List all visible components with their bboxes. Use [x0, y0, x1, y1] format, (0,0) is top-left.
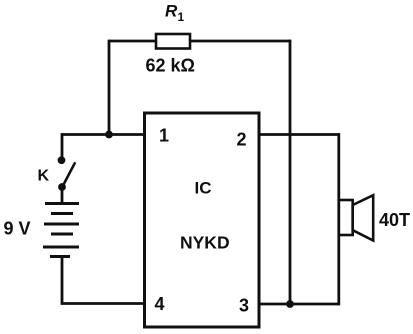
svg-text:3: 3 — [239, 296, 249, 316]
speaker LS1 40T — [339, 195, 373, 240]
wire top horizontal — [109, 40, 291, 43]
svg-text:1: 1 — [178, 10, 185, 24]
svg-text:62 kΩ: 62 kΩ — [146, 56, 195, 76]
switch K — [58, 156, 76, 191]
svg-text:R: R — [165, 2, 178, 21]
svg-text:1: 1 — [159, 126, 169, 146]
battery 9V — [43, 204, 79, 257]
svg-text:2: 2 — [237, 130, 247, 150]
svg-text:IC: IC — [195, 179, 212, 198]
wire battery down — [61, 257, 64, 304]
svg-text:40T: 40T — [379, 210, 410, 230]
wire pin2 right — [259, 133, 340, 136]
wire speaker loop vertical — [337, 133, 340, 305]
node junction left — [105, 131, 113, 139]
wire switch stub upper — [61, 133, 64, 160]
wire switch to battery — [61, 187, 64, 204]
wire left loop vertical — [108, 40, 111, 135]
svg-text:NYKD: NYKD — [180, 233, 230, 253]
resistor R1 — [156, 34, 190, 49]
svg-text:9 V: 9 V — [4, 219, 31, 239]
wire right loop vertical — [289, 40, 292, 304]
wire bottom to pin4 — [61, 302, 144, 305]
svg-text:4: 4 — [155, 294, 165, 314]
IC U1 NYKD — [145, 113, 260, 327]
node junction bottom right — [286, 300, 294, 308]
svg-text:K: K — [38, 168, 50, 185]
wire node to pin1 — [62, 133, 144, 136]
wire pin3 right — [259, 303, 339, 306]
